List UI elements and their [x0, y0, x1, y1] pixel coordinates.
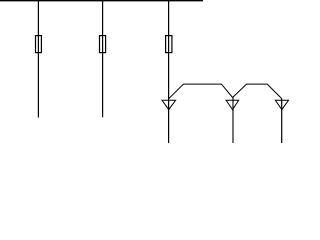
fuse F1	[36, 36, 42, 53]
arrow A2 (triangle)	[226, 100, 239, 109]
arrow A3 tail wire	[281, 99, 283, 144]
feeder 2 wire	[102, 0, 104, 117]
wire link 1	[169, 84, 233, 99]
feeder 1 wire	[37, 0, 39, 118]
arrow A1 (triangle)	[162, 100, 176, 109]
arrow A3 (triangle)	[275, 100, 288, 109]
wire link 2	[233, 84, 282, 98]
bus bar	[0, 0, 203, 2]
arrow A2 tail wire	[232, 98, 234, 144]
fuse F3	[166, 36, 172, 53]
fuse F2	[100, 36, 106, 53]
feeder 3 wire	[168, 0, 170, 143]
